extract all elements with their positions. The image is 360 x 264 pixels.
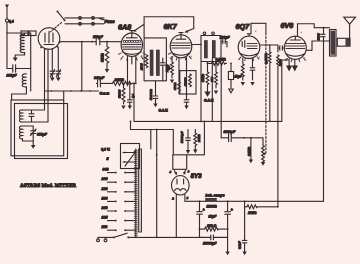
svg-text:6K7: 6K7 (164, 22, 178, 31)
resistor 300 (210, 62, 218, 95)
svg-text:5: 5 (107, 157, 110, 161)
antenna A1 (5, 5, 14, 34)
IF T1 secondary winding (156, 50, 159, 76)
svg-text:30KΩ: 30KΩ (201, 73, 205, 82)
fono terminals (66, 17, 115, 26)
svg-text:6V6: 6V6 (281, 21, 295, 30)
svg-text:110: 110 (102, 225, 108, 229)
wire box to cav (63, 91, 65, 100)
wire IF2 secondary down (211, 59, 213, 122)
wire screen junction drop (133, 83, 135, 121)
output transformer T3 (330, 30, 337, 57)
capacitor 200pF (219, 36, 231, 47)
svg-text:100pF: 100pF (7, 74, 18, 78)
resistor 0,5M detector load (207, 58, 227, 66)
rectifier 5Y3 (172, 173, 203, 195)
ac shunt drop (244, 137, 253, 163)
svg-text:800pF: 800pF (94, 76, 105, 80)
plate load resistors 6Q7 (260, 44, 283, 207)
padder capacitor C osc b (56, 48, 61, 82)
svg-text:50000: 50000 (118, 89, 122, 98)
box ground (31, 141, 36, 149)
svg-text:C.A.V.: C.A.V. (204, 99, 214, 103)
svg-text:125: 125 (102, 216, 109, 220)
svg-text:4: 4 (301, 31, 303, 35)
IF transformer T1 frame (143, 38, 167, 81)
svg-text:10000µF: 10000µF (203, 241, 217, 245)
svg-text:0,5MΩ: 0,5MΩ (247, 146, 251, 156)
svg-text:220: 220 (101, 187, 108, 191)
wire fono junction drop (81, 42, 83, 91)
oscillator coil L2 (12, 74, 27, 100)
svg-text:100pF: 100pF (93, 35, 104, 39)
6Q7 cathode cap (250, 58, 255, 86)
5Y3 plate bracket (169, 155, 190, 175)
svg-text:5Y3: 5Y3 (191, 173, 203, 180)
ground under coil L1 (13, 53, 25, 62)
grid loop wire 6K7 (144, 17, 194, 38)
speaker cone (344, 17, 356, 38)
capacitor 0,1 bias (128, 83, 135, 109)
resistor 2000 (139, 55, 148, 71)
resistor 20K screen (113, 78, 136, 86)
6V6 cathode grounds (287, 59, 297, 71)
svg-text:C.a.v.: C.a.v. (100, 92, 110, 96)
svg-text:10µF: 10µF (235, 75, 243, 79)
wave band switch S1 (57, 11, 68, 24)
svg-text:50000pF: 50000pF (180, 131, 184, 143)
B+ out rail (228, 200, 324, 202)
IF T1 primary winding (150, 50, 153, 76)
svg-text:4: 4 (169, 170, 172, 174)
IF T2 primary winding (204, 41, 207, 59)
svg-text:5000: 5000 (317, 33, 321, 40)
rectifier feed loop (131, 121, 205, 154)
6K7 cathode network (165, 57, 180, 95)
wire antenna to coil (7, 32, 31, 34)
electrolytic 16uF right (209, 200, 233, 237)
capacitor 0,1 T1 (161, 58, 171, 81)
shield box inner (11, 100, 64, 156)
pin numbers (120, 29, 306, 62)
box trimmer Ca (29, 110, 34, 122)
capacitor cathode 6K7 (184, 58, 189, 110)
resistor 50000 bias (118, 83, 126, 110)
tone capacitor 5000 (317, 27, 325, 41)
padder capacitor C osc a (50, 50, 55, 82)
primary winding with ticks (134, 149, 137, 237)
svg-text:2: 2 (171, 196, 174, 200)
wires into coil box (36, 49, 48, 123)
wire 6K7 plate to IF2 (192, 44, 202, 46)
svg-text:Fono: Fono (105, 19, 116, 24)
svg-text:300: 300 (210, 77, 214, 82)
capacitor 0,1uF out (237, 207, 247, 256)
detector coupling 6000pF (221, 63, 245, 141)
svg-text:2000: 2000 (139, 63, 143, 71)
oscillator triode V1 (38, 28, 60, 50)
svg-text:250 Ω: 250 Ω (206, 224, 217, 228)
heater tap selector box (121, 144, 140, 169)
svg-text:16µF: 16µF (209, 214, 218, 218)
screen wire 6V6 (282, 60, 288, 121)
svg-text:340: 340 (103, 168, 109, 172)
svg-text:bob. campo: bob. campo (206, 194, 225, 198)
svg-text:160: 160 (102, 196, 108, 200)
capacitor 50000pF rectifier (180, 130, 190, 155)
resistor 20K rectifier (193, 130, 201, 154)
box coil Lb (19, 126, 33, 141)
svg-text:0,5MΩ: 0,5MΩ (216, 58, 227, 62)
svg-text:6,3 V.: 6,3 V. (101, 147, 110, 151)
C.A.V. line (45, 90, 109, 95)
svg-text:+: + (203, 208, 205, 212)
svg-text:260: 260 (101, 177, 108, 181)
ground right cap (225, 237, 229, 255)
triode-diode 6Q7 (236, 22, 260, 59)
svg-text:50KΩ: 50KΩ (101, 53, 105, 62)
capacitor 100pF antenna (7, 33, 31, 78)
screen bus (130, 121, 282, 123)
ground rail with 10000pF (200, 235, 228, 245)
bleeder 20K (245, 201, 279, 215)
power transformer core (139, 149, 142, 232)
trimmer blocks (21, 31, 36, 36)
svg-text:0,1µF: 0,1µF (237, 241, 241, 249)
svg-text:200pF: 200pF (219, 36, 231, 40)
svg-text:+: + (231, 208, 233, 212)
resistor 250 (199, 224, 229, 231)
svg-text:0,1: 0,1 (131, 93, 135, 98)
antenna coil L1 (20, 33, 24, 53)
svg-text:20KΩ: 20KΩ (114, 78, 125, 82)
svg-text:0,25MΩ: 0,25MΩ (264, 53, 268, 64)
volume potentiometer 0,5M (247, 138, 265, 166)
6Q7 diode network (241, 58, 245, 86)
svg-text:0,4: 0,4 (9, 20, 14, 24)
svg-text:6000pF: 6000pF (224, 130, 237, 134)
dashed gang link (51, 23, 62, 32)
svg-text:6: 6 (188, 169, 190, 173)
HT secondary lines (151, 129, 158, 239)
svg-text:50000Ω: 50000Ω (149, 89, 153, 100)
bottom chassis rail (128, 236, 227, 238)
B+ rail right (307, 41, 330, 201)
svg-text:300Ω: 300Ω (173, 82, 177, 90)
primary voltage taps (108, 172, 136, 231)
svg-text:20KΩ: 20KΩ (247, 211, 257, 215)
svg-text:2: 2 (254, 29, 257, 33)
svg-text:140: 140 (102, 206, 108, 210)
speaker coil (337, 38, 350, 46)
electrolytic 16uF left (197, 200, 205, 237)
svg-text:C.A.V.: C.A.V. (159, 109, 169, 113)
plate bracket 6V6 (298, 24, 330, 37)
5Y3 outputs (171, 195, 205, 238)
IF transformer T2 frame (201, 32, 221, 121)
svg-text:6A8: 6A8 (118, 23, 131, 32)
tap labels (101, 147, 111, 229)
svg-text:8: 8 (187, 196, 189, 200)
svg-text:ASTARS Mod. MITZER: ASTARS Mod. MITZER (20, 183, 77, 189)
grid wire to 6A8 (60, 41, 121, 43)
svg-text:50000: 50000 (184, 77, 188, 86)
resistor 30K avc (201, 62, 214, 103)
svg-text:1200Ω: 1200Ω (207, 204, 218, 208)
svg-text:20KΩ: 20KΩ (197, 134, 201, 143)
box coil La (19, 110, 36, 122)
pentode 6K7 (164, 22, 192, 58)
IF T2 secondary winding (212, 41, 215, 59)
pentagrid 6A8 (118, 23, 144, 57)
volume box 50000 (180, 71, 196, 94)
6A8 cathode drops (127, 56, 137, 84)
electrolytic 10uF (228, 63, 242, 93)
power pentode 6V6 (281, 21, 307, 59)
wire secondary drop (30, 33, 32, 91)
shield box outer (15, 104, 68, 159)
svg-text:350pF: 350pF (37, 133, 48, 137)
svg-text:200Ω: 200Ω (165, 64, 169, 73)
svg-text:6Q7: 6Q7 (236, 22, 251, 31)
coupling capacitor to 6V6 (278, 46, 284, 50)
capacitor 800pF (94, 76, 113, 87)
grid cap bracket 6Q7 (251, 23, 266, 34)
potentiometer 50K (101, 41, 110, 73)
resistor 50000 avc (149, 81, 168, 113)
field coil bob campo (206, 194, 228, 209)
mains switch (98, 233, 129, 238)
capacitor 100pF grid (93, 35, 104, 45)
mains terminals (97, 237, 107, 241)
box trimmer Cb 350pF (30, 126, 47, 141)
shielded grid lead dashed (265, 33, 267, 154)
tube pin stubs (118, 53, 305, 62)
